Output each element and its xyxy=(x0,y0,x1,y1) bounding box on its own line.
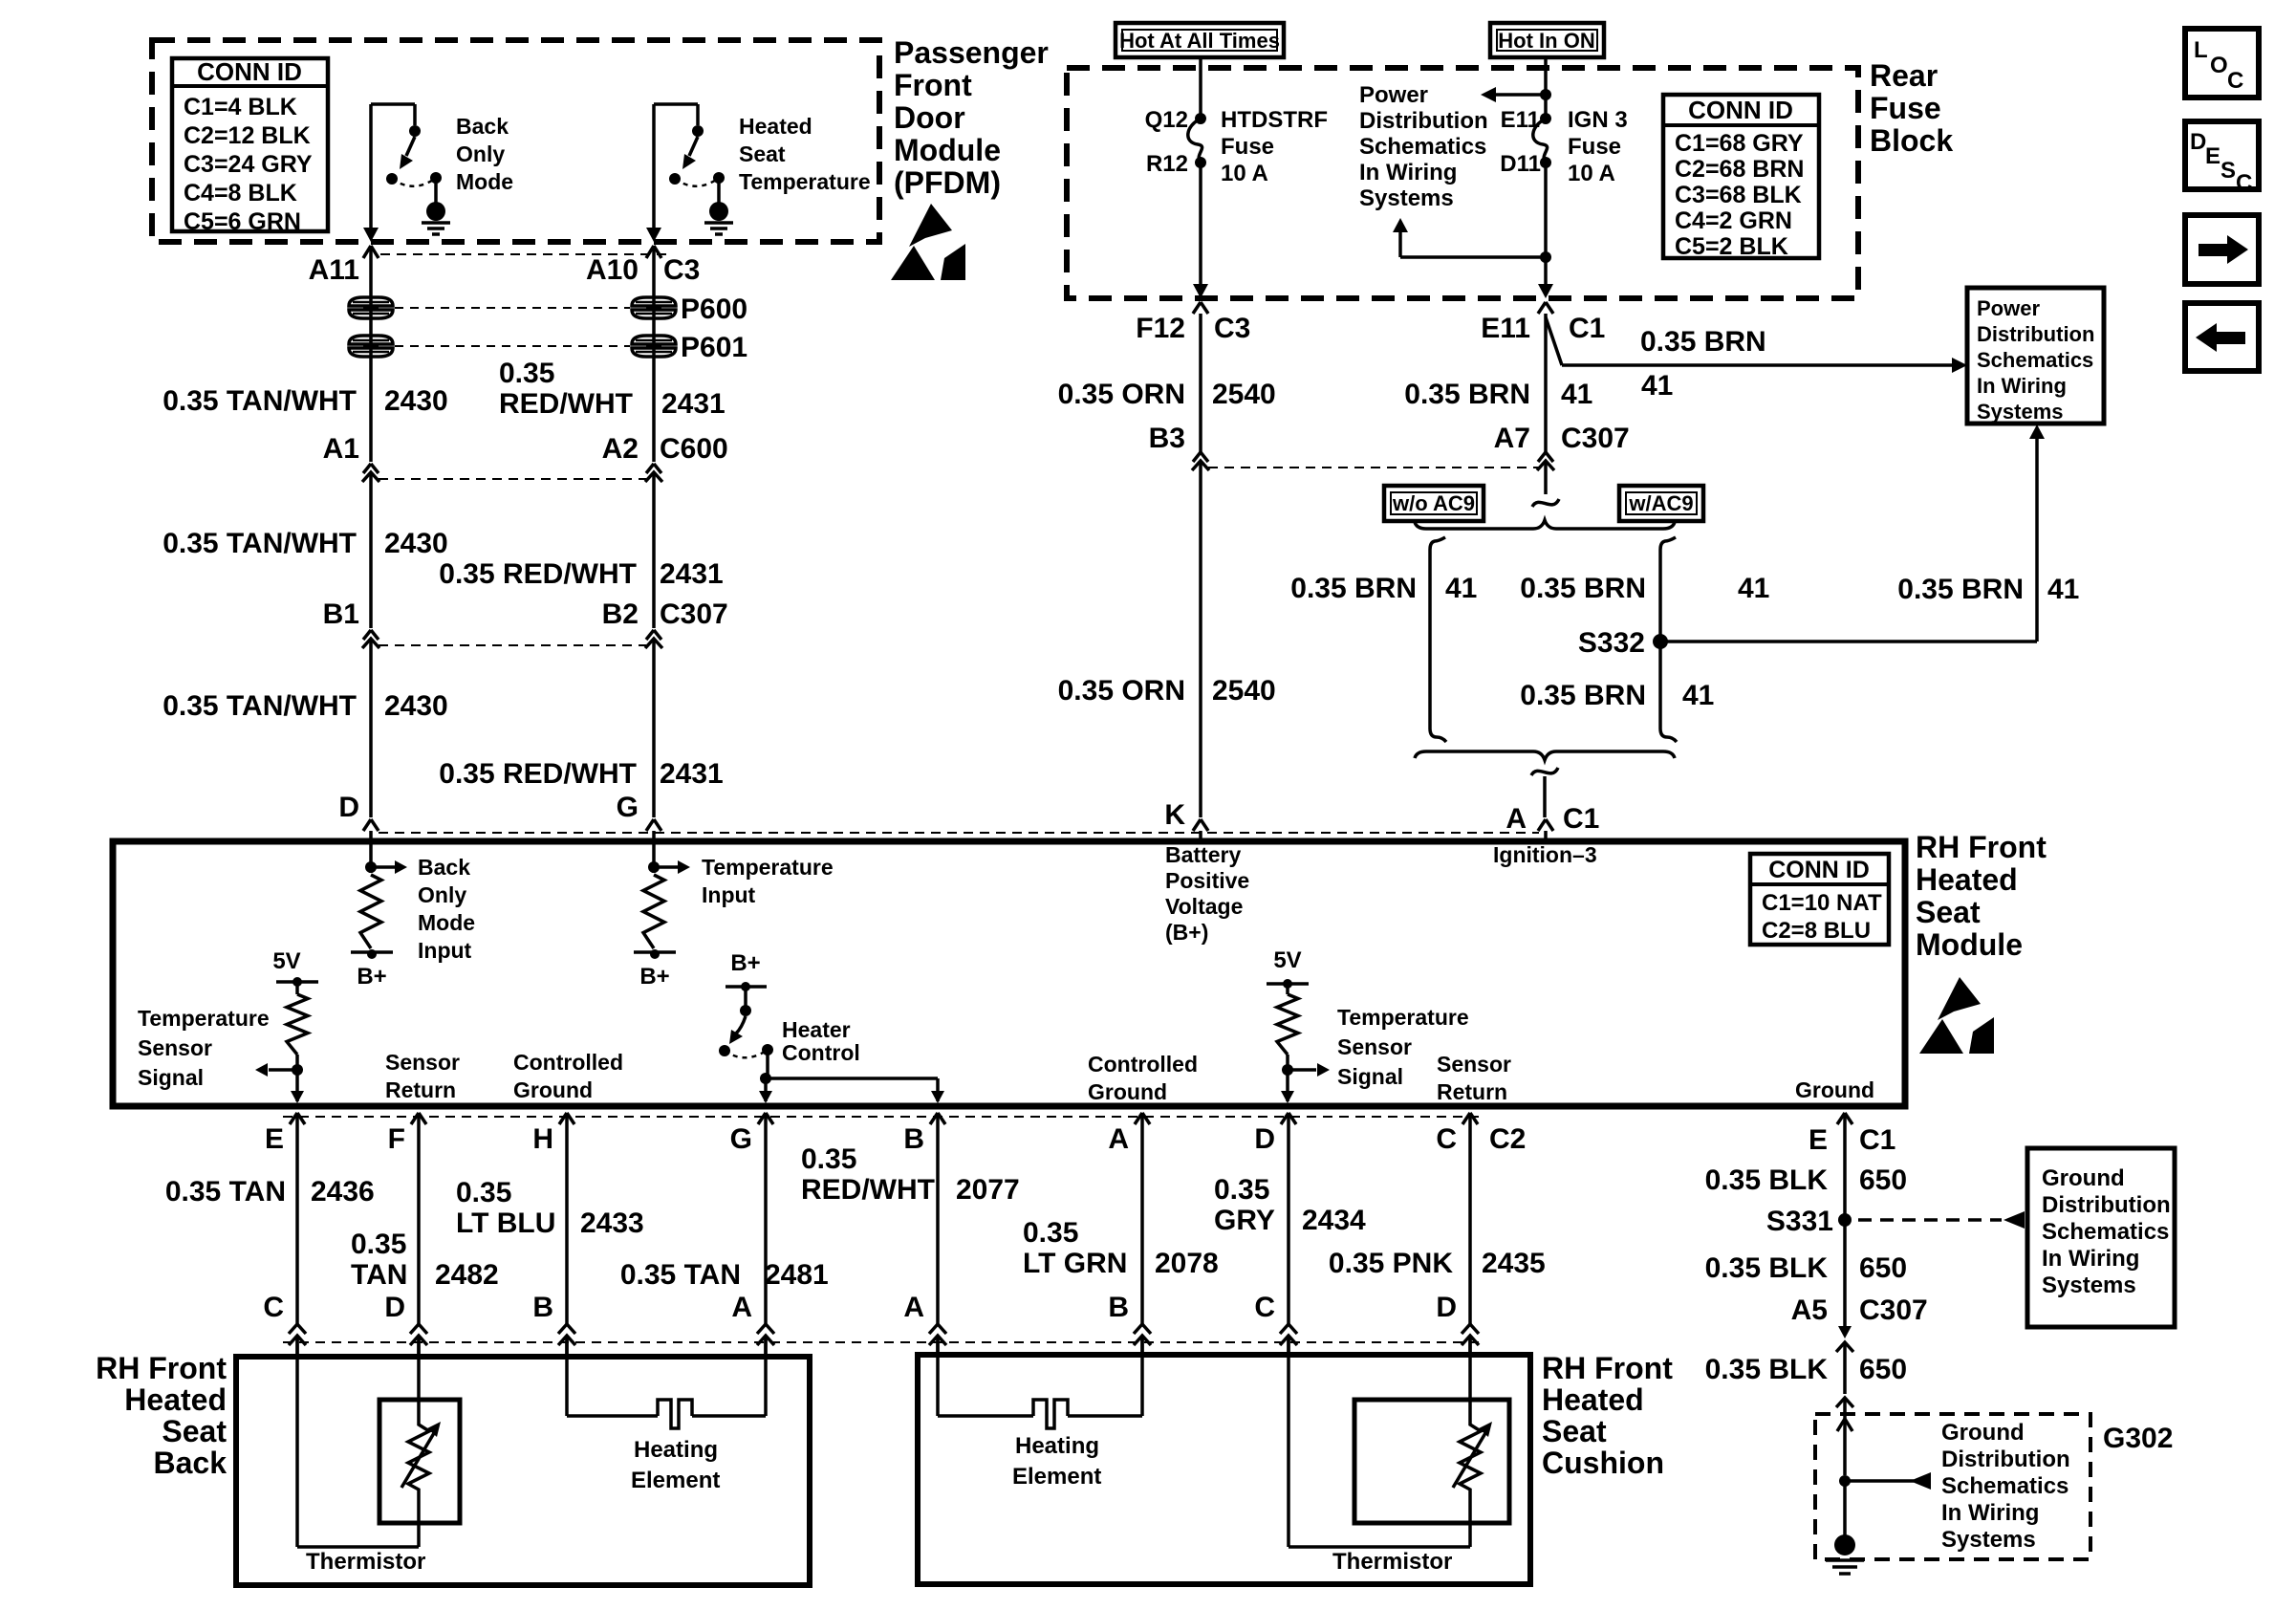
svg-text:0.35 BRN: 0.35 BRN xyxy=(1640,326,1766,358)
svg-text:2430: 2430 xyxy=(384,385,448,417)
svg-text:C4=8 BLK: C4=8 BLK xyxy=(184,180,297,207)
svg-text:Heated: Heated xyxy=(739,114,812,139)
svg-text:Hot In ON: Hot In ON xyxy=(1498,29,1594,53)
svg-text:Return: Return xyxy=(385,1077,456,1102)
svg-text:10 A: 10 A xyxy=(1221,161,1268,186)
svg-text:B3: B3 xyxy=(1149,423,1185,454)
svg-text:Ground: Ground xyxy=(1088,1079,1167,1104)
svg-text:LT BLU: LT BLU xyxy=(456,1207,555,1239)
svg-text:O: O xyxy=(2210,53,2228,78)
svg-text:Heater: Heater xyxy=(782,1017,851,1042)
svg-text:Thermistor: Thermistor xyxy=(1332,1549,1452,1575)
svg-text:K: K xyxy=(1164,799,1185,831)
svg-text:Schematics: Schematics xyxy=(1359,134,1486,160)
svg-text:2430: 2430 xyxy=(384,690,448,722)
svg-text:D: D xyxy=(1254,1123,1275,1155)
svg-text:In Wiring: In Wiring xyxy=(2042,1246,2139,1272)
svg-text:Temperature: Temperature xyxy=(739,169,871,194)
svg-text:Schematics: Schematics xyxy=(1977,348,2093,372)
svg-text:Module: Module xyxy=(894,133,1001,167)
svg-text:Distribution: Distribution xyxy=(1359,108,1488,134)
svg-text:5V: 5V xyxy=(272,948,300,974)
svg-text:2077: 2077 xyxy=(956,1174,1020,1206)
svg-text:0.35 BRN: 0.35 BRN xyxy=(1520,573,1646,604)
svg-text:Passenger: Passenger xyxy=(894,35,1049,70)
svg-text:0.35: 0.35 xyxy=(499,358,554,389)
svg-text:RH Front: RH Front xyxy=(1916,830,2047,864)
svg-text:Block: Block xyxy=(1870,123,1953,158)
svg-text:Heated: Heated xyxy=(1542,1382,1644,1417)
svg-text:C3=68 BLK: C3=68 BLK xyxy=(1675,182,1802,208)
svg-text:C2: C2 xyxy=(1489,1123,1526,1155)
svg-text:Input: Input xyxy=(418,938,472,963)
svg-text:2436: 2436 xyxy=(311,1176,375,1207)
svg-text:Sensor: Sensor xyxy=(1437,1052,1511,1077)
svg-text:Only: Only xyxy=(456,141,505,166)
svg-text:2481: 2481 xyxy=(765,1259,829,1291)
svg-text:Cushion: Cushion xyxy=(1542,1446,1664,1480)
svg-text:F: F xyxy=(388,1123,405,1155)
svg-text:650: 650 xyxy=(1859,1252,1907,1284)
svg-text:C1: C1 xyxy=(1569,313,1605,344)
svg-text:C: C xyxy=(2227,68,2243,94)
svg-text:In Wiring: In Wiring xyxy=(1977,374,2067,398)
svg-text:E11: E11 xyxy=(1501,107,1540,133)
svg-text:w/o AC9: w/o AC9 xyxy=(1392,491,1475,515)
svg-text:Voltage: Voltage xyxy=(1165,894,1243,919)
svg-text:0.35: 0.35 xyxy=(456,1177,511,1208)
svg-text:Mode: Mode xyxy=(456,169,513,194)
svg-text:41: 41 xyxy=(1682,680,1714,711)
svg-text:RED/WHT: RED/WHT xyxy=(801,1174,935,1206)
svg-text:Heated: Heated xyxy=(1916,862,2018,897)
svg-text:C2=68 BRN: C2=68 BRN xyxy=(1675,156,1804,183)
svg-text:RH Front: RH Front xyxy=(96,1351,227,1385)
svg-text:2435: 2435 xyxy=(1482,1248,1546,1279)
svg-text:CONN ID: CONN ID xyxy=(197,57,302,86)
svg-text:Seat: Seat xyxy=(162,1414,227,1448)
svg-text:A: A xyxy=(1505,803,1527,835)
svg-text:Door: Door xyxy=(894,100,965,135)
svg-text:S332: S332 xyxy=(1578,627,1645,659)
svg-text:2431: 2431 xyxy=(660,758,724,790)
svg-text:0.35 BLK: 0.35 BLK xyxy=(1705,1354,1829,1385)
svg-text:Ground: Ground xyxy=(2042,1165,2125,1191)
svg-text:0.35 TAN/WHT: 0.35 TAN/WHT xyxy=(162,690,357,722)
svg-text:Element: Element xyxy=(631,1468,720,1493)
svg-text:0.35 PNK: 0.35 PNK xyxy=(1329,1248,1453,1279)
svg-text:Signal: Signal xyxy=(138,1065,204,1090)
svg-text:C1=68 GRY: C1=68 GRY xyxy=(1675,130,1804,157)
svg-text:C3: C3 xyxy=(1214,313,1250,344)
svg-text:B: B xyxy=(903,1123,924,1155)
svg-text:B: B xyxy=(1108,1292,1129,1323)
svg-text:Q12: Q12 xyxy=(1145,107,1188,133)
svg-text:41: 41 xyxy=(1445,573,1477,604)
svg-text:Heated: Heated xyxy=(124,1382,227,1417)
svg-text:Systems: Systems xyxy=(2042,1273,2136,1298)
svg-text:2430: 2430 xyxy=(384,528,448,559)
svg-text:A2: A2 xyxy=(602,433,639,465)
svg-text:0.35 BRN: 0.35 BRN xyxy=(1520,680,1646,711)
svg-text:H: H xyxy=(532,1123,553,1155)
svg-text:Sensor: Sensor xyxy=(138,1035,212,1060)
svg-text:A7: A7 xyxy=(1494,423,1530,454)
svg-text:C600: C600 xyxy=(660,433,728,465)
svg-text:0.35 BLK: 0.35 BLK xyxy=(1705,1252,1829,1284)
svg-text:D: D xyxy=(1436,1292,1457,1323)
svg-text:0.35 RED/WHT: 0.35 RED/WHT xyxy=(439,558,637,590)
svg-text:Power: Power xyxy=(1977,296,2040,320)
svg-text:C: C xyxy=(1254,1292,1275,1323)
svg-text:CONN ID: CONN ID xyxy=(1688,96,1793,124)
svg-text:0.35 RED/WHT: 0.35 RED/WHT xyxy=(439,758,637,790)
svg-text:Element: Element xyxy=(1012,1464,1101,1490)
svg-text:0.35: 0.35 xyxy=(351,1229,406,1260)
svg-text:D11: D11 xyxy=(1500,151,1541,177)
svg-text:B: B xyxy=(532,1292,553,1323)
svg-text:C5=6 GRN: C5=6 GRN xyxy=(184,208,301,235)
svg-text:G302: G302 xyxy=(2103,1423,2173,1454)
svg-text:Input: Input xyxy=(702,882,756,907)
svg-text:C307: C307 xyxy=(660,598,728,630)
svg-text:0.35 TAN: 0.35 TAN xyxy=(620,1259,741,1291)
svg-text:Heating: Heating xyxy=(634,1437,718,1463)
svg-text:C: C xyxy=(263,1292,284,1323)
svg-text:0.35 TAN/WHT: 0.35 TAN/WHT xyxy=(162,385,357,417)
svg-text:0.35 BRN: 0.35 BRN xyxy=(1290,573,1417,604)
svg-text:2434: 2434 xyxy=(1302,1205,1366,1236)
svg-text:S331: S331 xyxy=(1766,1206,1833,1237)
svg-text:2482: 2482 xyxy=(435,1259,499,1291)
svg-text:10 A: 10 A xyxy=(1568,161,1615,186)
svg-text:S: S xyxy=(2220,158,2236,184)
svg-text:B1: B1 xyxy=(323,598,359,630)
svg-text:Sensor: Sensor xyxy=(1337,1034,1412,1059)
svg-text:E: E xyxy=(265,1123,284,1155)
svg-text:HTDSTRF: HTDSTRF xyxy=(1221,107,1328,133)
svg-text:C1: C1 xyxy=(1563,803,1599,835)
svg-text:Back: Back xyxy=(456,114,509,139)
svg-text:Battery: Battery xyxy=(1165,842,1241,867)
svg-text:(B+): (B+) xyxy=(1165,920,1208,945)
svg-text:w/AC9: w/AC9 xyxy=(1628,491,1693,515)
svg-text:Systems: Systems xyxy=(1941,1527,2036,1553)
svg-text:Controlled: Controlled xyxy=(513,1050,623,1075)
svg-text:Ground: Ground xyxy=(1941,1420,2025,1446)
svg-text:C1: C1 xyxy=(1859,1124,1895,1156)
svg-text:Sensor: Sensor xyxy=(385,1050,460,1075)
svg-text:Distribution: Distribution xyxy=(2042,1192,2171,1218)
svg-text:0.35 TAN/WHT: 0.35 TAN/WHT xyxy=(162,528,357,559)
svg-text:2431: 2431 xyxy=(660,558,724,590)
svg-text:B+: B+ xyxy=(357,964,386,990)
svg-text:0.35: 0.35 xyxy=(1023,1217,1078,1249)
svg-text:G: G xyxy=(730,1123,752,1155)
svg-text:C2=8 BLU: C2=8 BLU xyxy=(1762,918,1871,944)
svg-text:C5=2 BLK: C5=2 BLK xyxy=(1675,233,1788,260)
svg-text:41: 41 xyxy=(1641,370,1673,402)
svg-text:G: G xyxy=(617,792,639,823)
svg-text:2540: 2540 xyxy=(1212,379,1276,410)
svg-text:Seat: Seat xyxy=(739,141,786,166)
svg-text:B+: B+ xyxy=(639,964,669,990)
svg-text:IGN 3: IGN 3 xyxy=(1568,107,1628,133)
svg-text:C3: C3 xyxy=(663,254,700,286)
svg-text:C2=12 BLK: C2=12 BLK xyxy=(184,122,311,149)
svg-text:C1=4 BLK: C1=4 BLK xyxy=(184,94,297,120)
svg-text:E11: E11 xyxy=(1481,313,1530,344)
svg-text:41: 41 xyxy=(2047,574,2079,605)
svg-text:Fuse: Fuse xyxy=(1221,134,1274,160)
svg-text:F12: F12 xyxy=(1136,313,1185,344)
svg-text:0.35: 0.35 xyxy=(801,1143,856,1175)
svg-text:A11: A11 xyxy=(309,254,359,286)
svg-text:Systems: Systems xyxy=(1359,185,1454,211)
svg-text:C307: C307 xyxy=(1561,423,1630,454)
svg-text:Return: Return xyxy=(1437,1079,1507,1104)
svg-text:D: D xyxy=(338,792,359,823)
svg-text:2078: 2078 xyxy=(1155,1248,1219,1279)
svg-text:650: 650 xyxy=(1859,1354,1907,1385)
svg-text:P600: P600 xyxy=(681,294,747,325)
svg-text:Positive: Positive xyxy=(1165,868,1249,893)
svg-text:GRY: GRY xyxy=(1214,1205,1275,1236)
svg-text:Seat: Seat xyxy=(1542,1414,1607,1448)
svg-text:In Wiring: In Wiring xyxy=(1359,160,1457,185)
svg-text:2431: 2431 xyxy=(661,388,726,420)
svg-text:0.35 ORN: 0.35 ORN xyxy=(1058,379,1185,410)
svg-text:Mode: Mode xyxy=(418,910,475,935)
svg-text:Thermistor: Thermistor xyxy=(306,1549,425,1575)
svg-text:Ignition–3: Ignition–3 xyxy=(1493,842,1597,867)
svg-text:A: A xyxy=(903,1292,924,1323)
svg-text:0.35 TAN: 0.35 TAN xyxy=(165,1176,286,1207)
svg-text:B+: B+ xyxy=(730,950,760,976)
svg-text:E: E xyxy=(1809,1124,1828,1156)
svg-text:0.35: 0.35 xyxy=(1214,1174,1269,1206)
svg-text:Controlled: Controlled xyxy=(1088,1052,1198,1077)
svg-text:C: C xyxy=(1436,1123,1457,1155)
svg-text:0.35 ORN: 0.35 ORN xyxy=(1058,675,1185,707)
svg-text:LT GRN: LT GRN xyxy=(1023,1248,1127,1279)
svg-text:C: C xyxy=(2236,170,2252,196)
svg-text:Hot At All Times: Hot At All Times xyxy=(1119,29,1280,53)
svg-text:P601: P601 xyxy=(681,332,747,363)
svg-text:C3=24 GRY: C3=24 GRY xyxy=(184,151,313,178)
svg-text:Signal: Signal xyxy=(1337,1064,1403,1089)
svg-text:5V: 5V xyxy=(1273,947,1301,973)
svg-text:B2: B2 xyxy=(602,598,639,630)
svg-text:Ground: Ground xyxy=(1795,1077,1874,1102)
svg-text:Control: Control xyxy=(782,1040,860,1065)
svg-text:TAN: TAN xyxy=(351,1259,407,1291)
svg-text:Only: Only xyxy=(418,882,466,907)
svg-text:D: D xyxy=(2190,129,2206,155)
svg-text:A10: A10 xyxy=(586,254,639,286)
svg-text:A5: A5 xyxy=(1791,1295,1828,1326)
svg-text:Fuse: Fuse xyxy=(1568,134,1621,160)
svg-text:D: D xyxy=(384,1292,405,1323)
svg-text:Schematics: Schematics xyxy=(1941,1473,2069,1499)
svg-text:Back: Back xyxy=(418,855,470,880)
svg-text:Schematics: Schematics xyxy=(2042,1219,2169,1245)
svg-text:Temperature: Temperature xyxy=(1337,1005,1469,1030)
svg-text:Seat: Seat xyxy=(1916,895,1981,929)
svg-text:A: A xyxy=(1108,1123,1129,1155)
svg-text:RH Front: RH Front xyxy=(1542,1351,1673,1385)
svg-text:Rear: Rear xyxy=(1870,58,1938,93)
svg-text:In Wiring: In Wiring xyxy=(1941,1500,2039,1526)
svg-text:0.35 BRN: 0.35 BRN xyxy=(1897,574,2024,605)
svg-text:0.35 BRN: 0.35 BRN xyxy=(1404,379,1530,410)
svg-text:C307: C307 xyxy=(1859,1295,1928,1326)
svg-text:650: 650 xyxy=(1859,1164,1907,1196)
svg-text:41: 41 xyxy=(1561,379,1592,410)
svg-text:L: L xyxy=(2194,37,2208,63)
svg-text:2540: 2540 xyxy=(1212,675,1276,707)
svg-text:C4=2 GRN: C4=2 GRN xyxy=(1675,207,1792,234)
svg-text:Systems: Systems xyxy=(1977,400,2064,424)
svg-text:C1=10 NAT: C1=10 NAT xyxy=(1762,890,1882,916)
svg-text:2433: 2433 xyxy=(580,1207,644,1239)
svg-text:A: A xyxy=(731,1292,752,1323)
svg-text:Distribution: Distribution xyxy=(1977,322,2094,346)
svg-text:Front: Front xyxy=(894,68,972,102)
svg-text:0.35 BLK: 0.35 BLK xyxy=(1705,1164,1829,1196)
svg-text:Temperature: Temperature xyxy=(702,855,834,880)
svg-text:Heating: Heating xyxy=(1015,1433,1099,1459)
svg-text:R12: R12 xyxy=(1146,151,1188,177)
svg-text:Distribution: Distribution xyxy=(1941,1447,2070,1472)
svg-text:Fuse: Fuse xyxy=(1870,91,1941,125)
svg-text:RED/WHT: RED/WHT xyxy=(499,388,633,420)
svg-text:(PFDM): (PFDM) xyxy=(894,165,1001,200)
svg-text:A1: A1 xyxy=(323,433,359,465)
svg-text:Ground: Ground xyxy=(513,1077,593,1102)
svg-text:Temperature: Temperature xyxy=(138,1006,270,1031)
svg-text:Module: Module xyxy=(1916,927,2023,962)
svg-text:Power: Power xyxy=(1359,82,1428,108)
svg-text:41: 41 xyxy=(1738,573,1769,604)
svg-text:Back: Back xyxy=(154,1446,227,1480)
svg-text:E: E xyxy=(2205,143,2220,169)
svg-text:CONN ID: CONN ID xyxy=(1768,857,1870,883)
